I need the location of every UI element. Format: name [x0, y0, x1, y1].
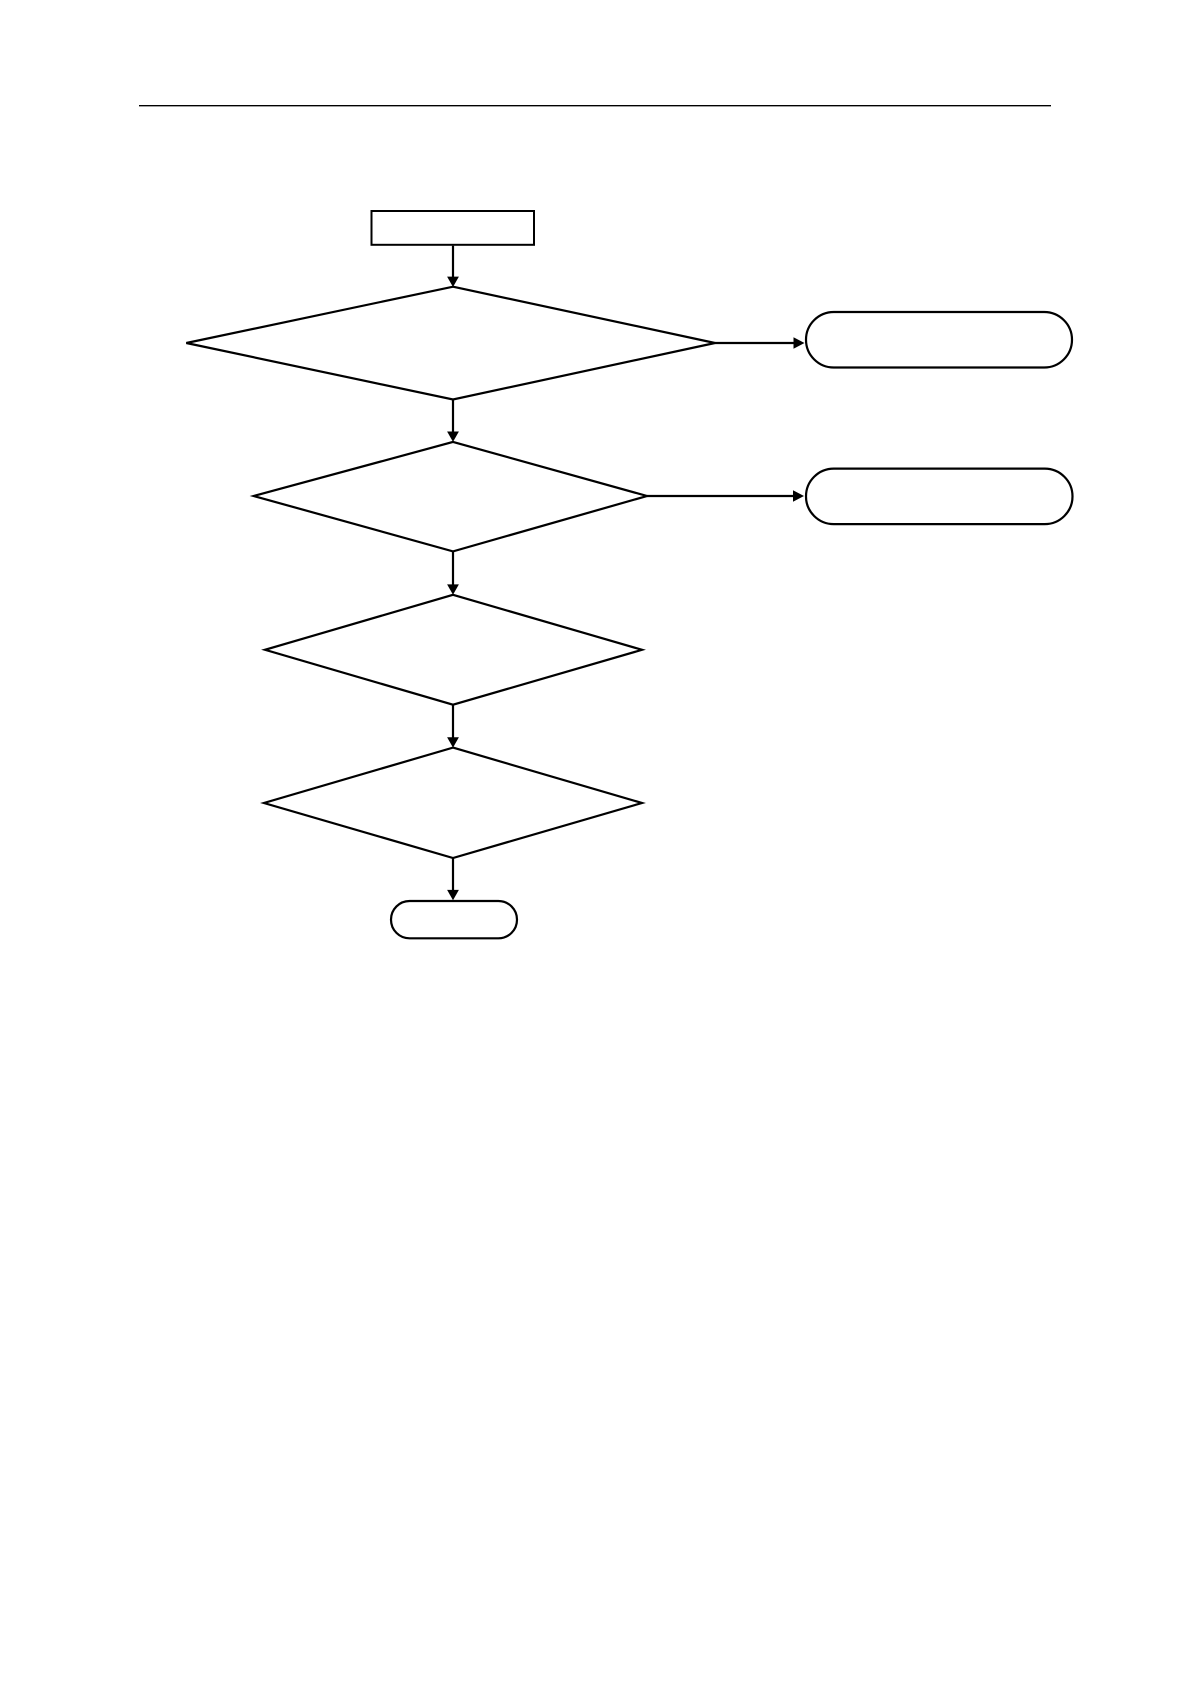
process box (top rectangle) [372, 211, 535, 245]
terminator T3 (end stadium, bottom) [391, 901, 517, 938]
terminator T2 (right stadium, row 2) [806, 469, 1073, 524]
terminator T1 (right stadium, row 1) [806, 312, 1072, 368]
wire: arrow from D1 to decision D2 [447, 400, 459, 442]
wire: arrow from D2 to decision D3 [447, 551, 459, 594]
wire: arrow from D3 to decision D4 [447, 705, 459, 748]
wire: arrow from D1 to terminator T1 [715, 337, 805, 349]
header rule [139, 105, 1051, 107]
wire: arrow from process box to decision D1 [447, 246, 459, 287]
decision diamond D4 [264, 748, 642, 858]
wire: arrow from D4 to terminator T3 [447, 858, 459, 900]
decision diamond D2 [254, 442, 647, 552]
decision diamond D1 [186, 287, 715, 400]
wire: arrow from D2 to terminator T2 [647, 490, 804, 502]
decision diamond D3 [265, 595, 642, 705]
